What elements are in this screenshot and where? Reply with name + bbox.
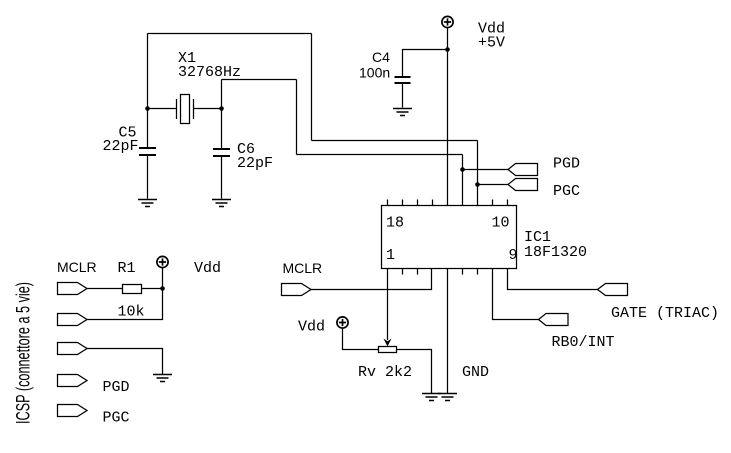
- power symbol Vdd (pot): [337, 317, 348, 328]
- svg-text:ICSP (connettore a 5 vie): ICSP (connettore a 5 vie): [14, 282, 35, 424]
- svg-text:PGD: PGD: [103, 379, 130, 396]
- capacitor C4: [395, 77, 411, 108]
- wire C4 to Vdd junction: [403, 50, 448, 77]
- wire to PGC connector: [478, 184, 509, 186]
- svg-text:MCLR: MCLR: [57, 259, 97, 275]
- wire junction up to Vdd: [162, 268, 164, 289]
- svg-text:PGC: PGC: [103, 410, 130, 427]
- svg-text:10: 10: [492, 215, 510, 232]
- resistor R1: [123, 285, 142, 294]
- connector ICSP pin 3: [58, 343, 88, 355]
- wire pin 8 to RB0 connector: [493, 269, 539, 320]
- ground (pin 5 GND): [438, 394, 457, 401]
- wire horizontal: [222, 79, 297, 81]
- svg-text:1: 1: [386, 247, 395, 264]
- wire down: [296, 80, 298, 155]
- wire pin 5 to ground: [447, 269, 449, 394]
- pot wiper arrowhead: [384, 339, 392, 347]
- svg-text:10k: 10k: [118, 304, 145, 321]
- svg-text:Vdd: Vdd: [298, 319, 325, 336]
- svg-text:22pF: 22pF: [237, 155, 273, 172]
- junction Vdd/C4: [445, 47, 450, 52]
- svg-text:Rv 2k2: Rv 2k2: [358, 364, 412, 381]
- svg-text:R1: R1: [118, 260, 136, 277]
- crystal X1: [148, 95, 222, 124]
- node XT1 (crystal left): [145, 106, 150, 111]
- connector MCLR (near IC): [282, 284, 312, 296]
- svg-text:18F1320: 18F1320: [524, 244, 587, 261]
- svg-text:Vdd: Vdd: [194, 260, 221, 277]
- svg-text:PGC: PGC: [553, 183, 580, 200]
- wire pin 9 to GATE connector: [508, 269, 598, 290]
- wire connector to R1: [87, 288, 123, 290]
- svg-text:32768Hz: 32768Hz: [178, 64, 241, 81]
- svg-text:+5V: +5V: [478, 35, 505, 52]
- capacitor C5: [139, 109, 156, 199]
- wire down: [311, 34, 313, 141]
- wire R1 to junction: [142, 288, 163, 290]
- wire top horizontal: [148, 33, 312, 35]
- capacitor C6: [213, 109, 230, 199]
- connector RB0/INT: [539, 314, 569, 326]
- wire pot left to Vdd: [343, 329, 379, 350]
- connector ICSP pin 1 MCLR: [58, 283, 88, 295]
- ground (C6): [212, 200, 231, 207]
- junction PGD: [460, 167, 465, 172]
- node XT2 (crystal right): [219, 106, 224, 111]
- svg-text:RB0/INT: RB0/INT: [552, 334, 615, 351]
- wire connector 2 to junction: [87, 289, 163, 320]
- wire connector 3 to ground: [87, 349, 163, 375]
- connector ICSP pin 4 PGD: [58, 375, 88, 387]
- wire crystal right up: [221, 80, 223, 109]
- svg-text:18: 18: [386, 215, 404, 232]
- power symbol Vdd (ICSP): [157, 256, 168, 267]
- wire down to pin 13: [462, 155, 464, 206]
- wire horizontal to pin 13 column: [297, 154, 463, 156]
- svg-text:PGD: PGD: [553, 156, 580, 173]
- wire Vdd vertical to pin 14: [447, 28, 449, 206]
- connector GATE: [598, 284, 628, 296]
- ground (pot): [422, 394, 441, 401]
- svg-text:9: 9: [509, 247, 518, 264]
- wire horizontal to pin 12 column: [312, 140, 478, 142]
- svg-text:C4: C4: [372, 49, 390, 65]
- pin ticks top (18,17,16,15,11,10): [388, 200, 508, 206]
- connector PGD (right): [508, 164, 538, 176]
- svg-text:GND: GND: [462, 364, 489, 381]
- wire pin 1 to pot wiper: [387, 269, 389, 341]
- ground (ICSP): [153, 375, 172, 382]
- svg-text:22pF: 22pF: [103, 138, 139, 155]
- pin ticks bottom (2,3,6,7): [403, 269, 478, 275]
- wire pot right to ground: [397, 350, 432, 394]
- junction PGC: [475, 182, 480, 187]
- svg-text:100n: 100n: [359, 65, 390, 81]
- wire down to pin 12: [477, 141, 479, 206]
- potentiometer Rv body: [379, 347, 397, 353]
- ground (C4): [393, 109, 412, 116]
- wire crystal left up: [147, 34, 149, 109]
- wire MCLR to pin 4: [311, 269, 432, 290]
- ground (C5): [138, 200, 157, 207]
- power symbol Vdd (top supply): [442, 16, 453, 27]
- IC U1 body: [382, 206, 517, 269]
- wire to PGD connector: [463, 169, 509, 171]
- connector PGC (right): [508, 179, 538, 191]
- svg-text:GATE (TRIAC): GATE (TRIAC): [611, 305, 719, 322]
- junction R1/Vdd: [160, 286, 165, 291]
- svg-text:MCLR: MCLR: [283, 260, 323, 276]
- connector ICSP pin 5 PGC: [58, 405, 88, 417]
- connector ICSP pin 2: [58, 314, 88, 326]
